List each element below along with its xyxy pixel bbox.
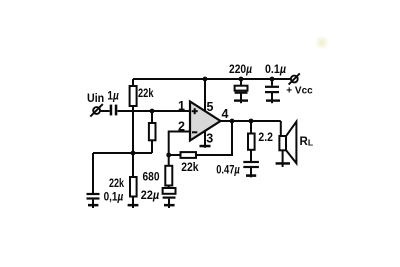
svg-text:Uin: Uin [87,91,104,105]
ground (0.1u top) [266,99,280,101]
capacitor 0,1u (bottom left) [87,193,100,200]
svg-text:2.2: 2.2 [258,130,273,144]
op-amp plus sign [192,108,198,114]
svg-text:22k: 22k [181,160,199,174]
capacitor 1u input coupling [110,105,118,116]
speaker RL [279,122,296,164]
node dot 0.1u/rail [270,77,275,82]
svg-text:1µ: 1µ [107,89,118,103]
node dot pin5/rail [203,77,208,82]
svg-text:1: 1 [178,99,185,113]
resistor 22k R3 (bias to ground) [130,177,137,197]
wire pin 3 to ground [204,131,206,148]
svg-text:3: 3 [206,132,213,146]
wire R3 to ground [132,153,134,208]
wire 2.2 branch down [250,121,252,134]
wire feedback node to R4 [169,154,181,156]
wire 0.47u to ground [250,168,252,177]
capacitor 0.1u (top decoupling) [265,86,279,94]
resistor 2.2 R6 (Zobel) [248,134,255,150]
wire top supply rail [133,78,291,80]
ground (pin 3) [200,145,211,148]
svg-text:4: 4 [222,107,229,121]
wire 0.1u to ground [271,93,273,103]
svg-text:0,1µ: 0,1µ [104,190,124,204]
input terminal Uin [90,104,103,117]
resistor 22k R4 (feedback) [181,152,197,158]
op-amp U1 [190,102,221,141]
node dot output/feedback [230,119,235,124]
svg-text:+ Vcc: + Vcc [286,85,313,96]
wire 680 to 22u cap [168,186,170,189]
wire input cap to op-amp pin 1 [118,110,190,112]
ground (0.47u) [246,174,256,177]
wire left vertical from rail through R1 to node C [132,79,134,153]
wire 680 chain down [168,155,170,166]
wire pin 5 from rail [204,79,206,112]
wire speaker drop [280,121,282,136]
resistor 22k R1 (top, bias from Vcc) [130,86,137,106]
svg-text:2: 2 [178,120,185,134]
ground (220u) [234,99,248,101]
terminal +Vcc [289,73,300,84]
node dot 220u/rail [239,77,244,82]
resistor 680 R5 [165,166,172,186]
wire output line [221,120,281,122]
ground (0,1u bottom) [88,204,98,207]
wire R2 branch vertical [151,111,153,153]
svg-text:RL: RL [300,136,314,148]
node dot output/Zobel [249,119,254,124]
wire down-left to 0.1u cap [92,153,94,193]
wire 0.1u cap lead [271,79,273,86]
wire 2.2 to 0.47u [250,150,252,161]
wire input line to pin 1 [101,110,110,112]
wire node C horizontal [93,152,152,154]
node dot input/R2 [150,109,155,114]
wire 0,1u cap to ground [92,200,94,208]
ground (22u) [164,204,175,207]
svg-text:5: 5 [207,100,214,114]
svg-text:0.47µ: 0.47µ [216,163,240,177]
wire speaker to ground [282,150,284,167]
svg-text:0.1µ: 0.1µ [265,62,286,76]
wire 220u cap lead [240,79,242,86]
ground (22k R3) [128,204,139,207]
capacitor 220u (electrolytic plates) [235,86,248,91]
svg-text:680: 680 [143,169,160,183]
wire pin 2 to feedback node [169,132,190,156]
capacitor 0.47u (Zobel) [243,161,259,168]
svg-text:22k: 22k [138,86,154,100]
node dot feedback [166,153,171,158]
svg-text:220µ: 220µ [229,62,252,76]
svg-text:22µ: 22µ [141,188,159,202]
wire R4 to output [196,121,233,155]
ground (speaker) [276,162,290,165]
capacitor 22u (electrolytic in feedback) [163,188,176,194]
op-amp minus sign [192,131,197,133]
decorative faint spot [314,35,330,51]
svg-text:22k: 22k [109,176,124,190]
resistor R2 (input series) [149,123,156,140]
wire 22u cap to ground [168,199,170,208]
wire 220u to ground [240,94,242,104]
node dot C (bias node) [131,151,136,156]
